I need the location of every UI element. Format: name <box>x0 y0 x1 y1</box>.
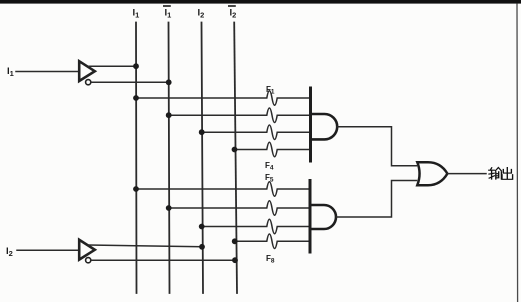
output label (Chinese: chu) <box>502 168 513 180</box>
wire U1 inverted output to I1-bar bus <box>91 81 169 83</box>
junction dot I2-bar inverted <box>232 257 238 263</box>
svg-text:I2: I2 <box>230 8 237 20</box>
svg-text:I2: I2 <box>198 8 205 20</box>
buffer U1 triangle <box>79 61 95 81</box>
wire bus line I2-bar <box>234 23 237 294</box>
wire input I2 <box>17 249 79 251</box>
fuse F1 row wire <box>136 91 310 106</box>
junction dot F6 row <box>166 205 172 211</box>
junction dot F5 row <box>133 186 139 192</box>
wire U2 inverted output to I2-bar bus <box>91 259 235 261</box>
wire bus line I1-bar <box>169 23 170 294</box>
fuse F3 row wire <box>202 125 310 140</box>
junction dot I1-bar inverted <box>166 79 172 85</box>
fuse F6 row wire <box>169 201 310 216</box>
svg-text:F8: F8 <box>266 254 275 265</box>
junction dot F7 row <box>199 224 205 230</box>
junction dot F4 row <box>232 147 238 153</box>
svg-text:F4: F4 <box>265 161 274 172</box>
wire bus line I1 <box>135 23 138 294</box>
svg-text:F1: F1 <box>266 85 275 96</box>
junction dot F1 row <box>133 95 139 101</box>
fuse F4 row wire <box>235 142 311 157</box>
fuse F5 row wire <box>136 182 310 197</box>
wire AND U3 output <box>337 127 416 166</box>
wire U2 true output to I2 bus <box>89 245 203 247</box>
svg-text:I1: I1 <box>165 8 172 20</box>
junction dot F2 row <box>166 112 172 118</box>
buffer U2 triangle <box>79 240 95 260</box>
svg-text:I1: I1 <box>7 66 14 78</box>
svg-text:F5: F5 <box>265 173 274 184</box>
AND gate U3 body <box>312 114 337 139</box>
output label (Chinese: shu) <box>489 168 502 179</box>
right border <box>516 4 519 302</box>
AND gate U3 input bar <box>309 88 312 161</box>
wire input I1 <box>16 71 79 73</box>
junction dot F8 row <box>232 238 238 244</box>
fuse F2 row wire <box>169 108 310 123</box>
top border <box>0 0 521 4</box>
svg-text:I1: I1 <box>133 8 140 20</box>
wire U1 true output to I1 bus <box>89 65 137 67</box>
wire OR output <box>448 173 487 175</box>
buffer U2 bubble <box>86 258 91 263</box>
junction dot I1 true <box>133 63 139 69</box>
wire bus line I2 <box>202 23 204 294</box>
junction dot I2 true <box>199 244 205 250</box>
wire AND U4 output <box>337 181 417 218</box>
fuse F8 row wire <box>235 234 310 249</box>
AND gate U4 body <box>312 205 337 229</box>
fuse F7 row wire <box>202 219 310 234</box>
svg-text:I2: I2 <box>6 246 13 258</box>
buffer U1 bubble <box>86 80 91 85</box>
junction dot F3 row <box>199 129 205 135</box>
AND gate U4 input bar <box>309 181 312 253</box>
OR gate U5 body <box>417 162 447 185</box>
